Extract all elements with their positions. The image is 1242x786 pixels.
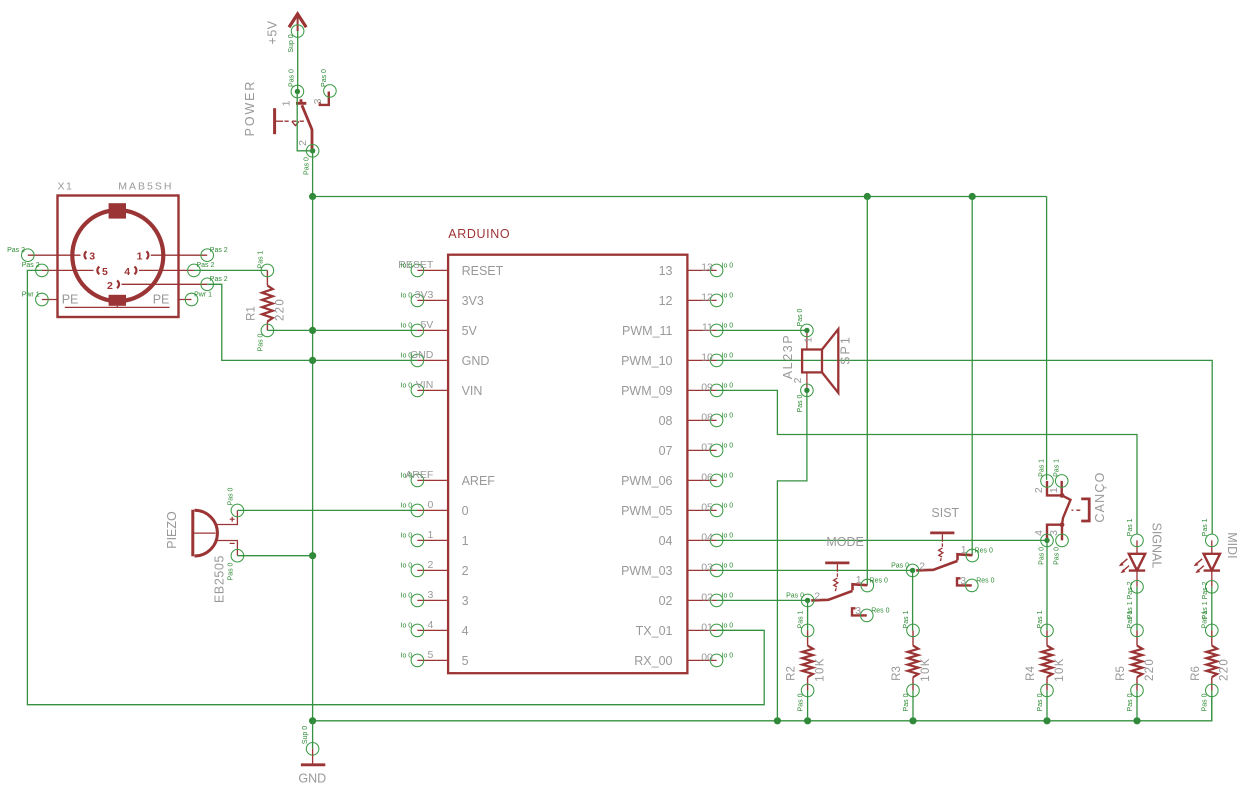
svg-text:4: 4 bbox=[1033, 530, 1045, 536]
svg-text:GND: GND bbox=[462, 354, 490, 368]
svg-text:1: 1 bbox=[961, 544, 967, 556]
junction 5V net bbox=[309, 327, 316, 334]
svg-text:PWM_10: PWM_10 bbox=[621, 354, 672, 368]
wire X1 pin5 to TX_01 bbox=[27, 270, 764, 704]
ARDUINO pin PWM_10 (right) bbox=[621, 352, 733, 369]
ground GND bbox=[298, 743, 326, 786]
X1 contact arcs bbox=[84, 251, 148, 288]
svg-text:0: 0 bbox=[427, 499, 433, 511]
svg-text:VIN: VIN bbox=[462, 384, 483, 398]
svg-text:2: 2 bbox=[107, 280, 113, 292]
svg-text:Pas 0: Pas 0 bbox=[321, 69, 328, 87]
svg-text:11: 11 bbox=[702, 322, 713, 334]
svg-text:Pas 0: Pas 0 bbox=[304, 157, 311, 175]
svg-text:3V3: 3V3 bbox=[462, 294, 484, 308]
wire +5V to POWER pin1 bbox=[297, 31, 299, 91]
ARDUINO pin 2 (left) bbox=[401, 559, 469, 578]
ARDUINO pin RX_00 (right) bbox=[634, 652, 733, 669]
svg-text:Pas 0: Pas 0 bbox=[1202, 693, 1209, 711]
svg-text:PE: PE bbox=[62, 292, 79, 306]
svg-text:2: 2 bbox=[462, 564, 469, 578]
svg-text:Io 0: Io 0 bbox=[722, 412, 734, 419]
svg-text:POWER: POWER bbox=[243, 80, 257, 137]
svg-text:MAB5SH: MAB5SH bbox=[118, 181, 173, 193]
svg-text:EB2505: EB2505 bbox=[213, 555, 227, 603]
ARDUINO pin GND (left) bbox=[401, 349, 490, 368]
svg-text:Res 0: Res 0 bbox=[976, 577, 994, 584]
svg-text:Pas 0: Pas 0 bbox=[1039, 547, 1046, 565]
svg-text:Pas 1: Pas 1 bbox=[1202, 610, 1209, 628]
ARDUINO pin RESET (left) bbox=[398, 259, 503, 278]
ARDUINO pin PWM_05 (right) bbox=[621, 502, 733, 518]
svg-text:1: 1 bbox=[856, 574, 862, 586]
svg-text:02: 02 bbox=[659, 594, 673, 608]
wire to GND symbol bbox=[312, 721, 314, 749]
svg-text:TX_01: TX_01 bbox=[636, 624, 673, 638]
svg-text:Pas 0: Pas 0 bbox=[891, 563, 909, 570]
X1 pin numbers bbox=[89, 251, 142, 292]
svg-text:0: 0 bbox=[462, 504, 469, 518]
wire CANCO pin4 to R4 bbox=[1046, 540, 1048, 630]
wire X1 pin4 to R1 bbox=[194, 269, 268, 271]
svg-text:220: 220 bbox=[274, 298, 286, 321]
svg-text:Pas 0: Pas 0 bbox=[1037, 693, 1044, 711]
X1 pin dir labels bbox=[7, 247, 228, 298]
svg-text:Io 0: Io 0 bbox=[401, 323, 413, 330]
switch CANCO bbox=[1033, 459, 1089, 565]
svg-text:4: 4 bbox=[124, 266, 130, 278]
resistor R6 bbox=[1190, 610, 1231, 711]
ARDUINO pin VIN (left) bbox=[401, 379, 483, 398]
svg-text:R1: R1 bbox=[246, 306, 258, 321]
svg-text:Pas 0: Pas 0 bbox=[797, 693, 804, 711]
ARDUINO pin 4 (left) bbox=[401, 619, 469, 638]
wire 10 to MIDI led bbox=[717, 360, 1213, 534]
wire R6 to rail bbox=[1211, 690, 1213, 720]
svg-text:4: 4 bbox=[462, 624, 469, 638]
wire MIDI led to R6 bbox=[1211, 587, 1213, 631]
svg-text:5: 5 bbox=[427, 649, 433, 661]
svg-text:Pas 2: Pas 2 bbox=[210, 247, 228, 254]
svg-text:Io 0: Io 0 bbox=[722, 592, 734, 599]
svg-text:PE: PE bbox=[153, 292, 170, 306]
svg-text:RX_00: RX_00 bbox=[634, 654, 672, 668]
svg-text:3: 3 bbox=[960, 575, 966, 587]
svg-text:10: 10 bbox=[701, 352, 713, 364]
svg-text:Res 0: Res 0 bbox=[871, 607, 889, 614]
svg-text:3: 3 bbox=[1048, 530, 1060, 536]
resistor R5 bbox=[1115, 610, 1156, 711]
resistor R2 bbox=[786, 610, 827, 711]
wire SP1 pin2 to rail bbox=[777, 390, 807, 721]
resistor R1 bbox=[261, 264, 274, 337]
svg-text:Res 0: Res 0 bbox=[870, 577, 888, 584]
svg-text:Io 0: Io 0 bbox=[722, 442, 734, 449]
wire piezo minus to GND net bbox=[237, 555, 312, 557]
svg-text:06: 06 bbox=[701, 472, 713, 484]
svg-text:3V3: 3V3 bbox=[415, 289, 434, 301]
ARDUINO pin 5V (left) bbox=[401, 319, 478, 338]
svg-text:220: 220 bbox=[1144, 658, 1156, 681]
svg-text:Pas 2: Pas 2 bbox=[210, 276, 228, 283]
svg-text:3: 3 bbox=[89, 251, 95, 263]
ARDUINO pin TX_01 (right) bbox=[636, 622, 734, 639]
svg-text:2: 2 bbox=[297, 140, 309, 146]
ARDUINO pin AREF (left) bbox=[401, 469, 496, 488]
ic ARDUINO body bbox=[448, 255, 687, 674]
wire SIGNAL led to R5 bbox=[1136, 587, 1138, 631]
speaker SP1 AL23P bbox=[801, 324, 839, 397]
ARDUINO pin PWM_03 (right) bbox=[621, 562, 733, 579]
svg-text:2: 2 bbox=[427, 559, 433, 571]
svg-text:Pas 1: Pas 1 bbox=[1039, 459, 1046, 477]
svg-text:CANÇO: CANÇO bbox=[1093, 471, 1107, 522]
svg-text:2: 2 bbox=[1033, 487, 1045, 493]
svg-text:1: 1 bbox=[1048, 487, 1060, 493]
X1 name labels bbox=[58, 181, 174, 193]
svg-text:GND: GND bbox=[298, 772, 326, 786]
PIEZO pin dir labels bbox=[227, 487, 234, 580]
junction GND net bbox=[309, 357, 316, 364]
svg-text:Io 0: Io 0 bbox=[722, 562, 734, 569]
svg-text:Io 0: Io 0 bbox=[722, 262, 734, 269]
svg-text:Pas 1: Pas 1 bbox=[1037, 610, 1044, 628]
svg-text:5: 5 bbox=[102, 266, 108, 278]
svg-text:Pas 1: Pas 1 bbox=[903, 610, 910, 628]
svg-text:5: 5 bbox=[462, 654, 469, 668]
svg-text:Io 0: Io 0 bbox=[722, 352, 734, 359]
wire POWER pin1 to pin2 bbox=[297, 92, 312, 151]
svg-text:08: 08 bbox=[659, 414, 673, 428]
R1 pin dir labels bbox=[257, 250, 264, 351]
svg-text:AL23P: AL23P bbox=[781, 334, 795, 380]
wire SIST pin2 to R3 bbox=[912, 570, 914, 630]
svg-text:Pas 0: Pas 0 bbox=[227, 487, 234, 505]
svg-text:Pas 0: Pas 0 bbox=[289, 69, 296, 87]
X1 pin leads bbox=[28, 255, 207, 299]
svg-text:09: 09 bbox=[701, 382, 713, 394]
svg-text:1: 1 bbox=[803, 337, 815, 343]
wire X1 pin2 to GND pin bbox=[207, 284, 417, 360]
wire 09 to SIGNAL led bbox=[717, 390, 1137, 534]
svg-text:Sup 0: Sup 0 bbox=[288, 34, 295, 52]
svg-text:Pas 0: Pas 0 bbox=[786, 593, 804, 600]
wire R3 to rail bbox=[912, 690, 914, 720]
wire 03 to SIST pin2 bbox=[717, 569, 913, 571]
PIEZO labels bbox=[165, 511, 227, 603]
piezo PIEZO EB2505 bbox=[193, 504, 244, 562]
svg-text:12: 12 bbox=[701, 292, 713, 304]
svg-text:PWM_11: PWM_11 bbox=[622, 324, 673, 338]
svg-text:1: 1 bbox=[281, 100, 293, 106]
ARDUINO pin 02 (right) bbox=[659, 592, 734, 609]
svg-text:Pas 0: Pas 0 bbox=[903, 693, 910, 711]
svg-text:PWM_05: PWM_05 bbox=[621, 504, 672, 518]
svg-text:Io 0: Io 0 bbox=[401, 593, 413, 600]
junction rail SIST feed bbox=[969, 193, 976, 200]
junction rail R4 bbox=[1043, 717, 1050, 724]
wire 04 to CANCO pin4 bbox=[717, 539, 1047, 541]
svg-text:Io 0: Io 0 bbox=[722, 382, 734, 389]
svg-text:X1: X1 bbox=[58, 181, 74, 193]
svg-text:Pas 0: Pas 0 bbox=[1127, 693, 1134, 711]
wire main vertical net bbox=[312, 197, 314, 721]
svg-text:PIEZO: PIEZO bbox=[165, 511, 179, 549]
wire R2 to rail bbox=[807, 690, 809, 720]
POWER pin numbers bbox=[281, 98, 325, 146]
ARDUINO pin 0 (left) bbox=[401, 499, 469, 518]
svg-text:3: 3 bbox=[462, 594, 469, 608]
wire 11 to SP1 pin1 bbox=[717, 329, 807, 331]
ARDUINO pin 07 (right) bbox=[659, 442, 734, 459]
ARDUINO pin 3V3 (left) bbox=[401, 289, 484, 308]
svg-text:Pwr 1: Pwr 1 bbox=[22, 291, 40, 298]
connector X1 MAB5SH bbox=[58, 196, 179, 318]
led SIGNAL bbox=[1119, 518, 1164, 619]
ARDUINO pin 12 (right) bbox=[659, 292, 734, 309]
svg-text:3: 3 bbox=[855, 605, 861, 617]
svg-text:08: 08 bbox=[701, 412, 713, 424]
svg-text:Pas 1: Pas 1 bbox=[1127, 610, 1134, 628]
SP1 labels bbox=[781, 334, 853, 380]
svg-text:R6: R6 bbox=[1190, 666, 1202, 681]
svg-text:2: 2 bbox=[919, 560, 925, 572]
svg-text:PWM_09: PWM_09 bbox=[621, 384, 672, 398]
svg-text:Io 0: Io 0 bbox=[401, 383, 413, 390]
X1 pin circles bbox=[22, 249, 214, 306]
svg-text:SIGNAL: SIGNAL bbox=[1149, 522, 1163, 568]
svg-text:12: 12 bbox=[659, 294, 673, 308]
svg-text:10K: 10K bbox=[815, 657, 827, 681]
svg-text:Pas 1: Pas 1 bbox=[257, 250, 264, 268]
wire rail down to MODE pin1 bbox=[866, 197, 868, 586]
SP1 pin dir labels bbox=[797, 308, 804, 412]
svg-text:Io 0: Io 0 bbox=[401, 623, 413, 630]
svg-text:13: 13 bbox=[701, 262, 713, 274]
wire POWER pin2 down bbox=[312, 151, 314, 197]
svg-text:Io 0: Io 0 bbox=[722, 502, 734, 509]
svg-text:Pas 0: Pas 0 bbox=[227, 562, 234, 580]
svg-text:03: 03 bbox=[701, 562, 713, 574]
svg-text:5V: 5V bbox=[420, 319, 433, 331]
svg-text:3: 3 bbox=[312, 98, 324, 104]
svg-text:VIN: VIN bbox=[416, 379, 434, 391]
svg-text:4: 4 bbox=[427, 619, 433, 631]
svg-text:1: 1 bbox=[462, 534, 469, 548]
switch MODE bbox=[786, 535, 889, 622]
resistor R4 bbox=[1025, 610, 1066, 711]
svg-text:Io 0: Io 0 bbox=[401, 473, 413, 480]
svg-text:Res 0: Res 0 bbox=[975, 547, 993, 554]
ARDUINO pin 3 (left) bbox=[401, 589, 469, 608]
wire bottom GND rail bbox=[313, 697, 1212, 721]
svg-text:SP1: SP1 bbox=[839, 335, 853, 365]
svg-text:AREF: AREF bbox=[462, 474, 496, 488]
svg-text:Pas 0: Pas 0 bbox=[797, 308, 804, 326]
svg-text:Pas 1: Pas 1 bbox=[1053, 459, 1060, 477]
svg-text:Io 0: Io 0 bbox=[722, 472, 734, 479]
svg-text:PWM_03: PWM_03 bbox=[621, 564, 672, 578]
wire +5V rail bbox=[313, 196, 1047, 198]
svg-text:ARDUINO: ARDUINO bbox=[448, 227, 510, 241]
svg-text:Pas 0: Pas 0 bbox=[257, 333, 264, 351]
svg-text:R3: R3 bbox=[891, 666, 903, 681]
wire 01 stub bbox=[717, 629, 765, 631]
svg-text:R4: R4 bbox=[1025, 666, 1037, 681]
wire R1 to 5V pin bbox=[267, 329, 417, 331]
wire rail down to CANCO pin2 bbox=[1046, 197, 1048, 480]
svg-text:Io 0: Io 0 bbox=[401, 293, 413, 300]
svg-text:Io 0: Io 0 bbox=[722, 322, 734, 329]
ARDUINO pin 1 (left) bbox=[401, 529, 469, 548]
ARDUINO pin 13 (right) bbox=[659, 262, 734, 279]
svg-text:Pas 1: Pas 1 bbox=[1202, 518, 1209, 536]
ARDUINO pin PWM_09 (right) bbox=[621, 382, 733, 399]
svg-text:2: 2 bbox=[814, 590, 820, 602]
svg-text:1: 1 bbox=[427, 529, 433, 541]
svg-text:MODE: MODE bbox=[826, 535, 864, 549]
svg-text:10K: 10K bbox=[920, 657, 932, 681]
svg-text:07: 07 bbox=[659, 444, 673, 458]
svg-text:01: 01 bbox=[701, 622, 713, 634]
svg-text:Pas 0: Pas 0 bbox=[1053, 547, 1060, 565]
svg-text:Pwr 1: Pwr 1 bbox=[194, 291, 212, 298]
X1 PE labels bbox=[62, 292, 170, 306]
ARDUINO pin 5 (left) bbox=[401, 649, 469, 668]
wire R5 to rail bbox=[1136, 690, 1138, 720]
svg-text:SIST: SIST bbox=[931, 506, 959, 520]
svg-text:04: 04 bbox=[701, 532, 713, 544]
svg-text:Sup 0: Sup 0 bbox=[302, 726, 309, 744]
svg-text:00: 00 bbox=[701, 652, 713, 664]
junction rail R3 bbox=[909, 717, 916, 724]
switch SIST bbox=[891, 506, 994, 592]
svg-text:Io 0: Io 0 bbox=[722, 652, 734, 659]
svg-text:Pas 1: Pas 1 bbox=[1127, 518, 1134, 536]
junction +5V rail left bbox=[309, 193, 316, 200]
svg-text:PWM_06: PWM_06 bbox=[621, 474, 672, 488]
svg-text:5V: 5V bbox=[462, 324, 478, 338]
svg-text:04: 04 bbox=[659, 534, 673, 548]
junction rail R2 column bbox=[774, 717, 781, 724]
svg-text:Io 0: Io 0 bbox=[722, 292, 734, 299]
wire R4 to rail bbox=[1046, 690, 1048, 720]
wire MODE pin2 to R2 bbox=[807, 600, 809, 630]
svg-text:10K: 10K bbox=[1054, 657, 1066, 681]
svg-text:02: 02 bbox=[701, 592, 713, 604]
svg-text:Pas 2: Pas 2 bbox=[7, 247, 25, 254]
svg-text:05: 05 bbox=[701, 502, 713, 514]
svg-text:R2: R2 bbox=[786, 666, 798, 681]
wire rail down to SIST pin1 bbox=[971, 197, 973, 556]
wire 02 to MODE pin2 bbox=[717, 599, 808, 601]
svg-text:1: 1 bbox=[137, 251, 143, 263]
junction rail R5 bbox=[1133, 717, 1140, 724]
svg-text:Pas 0: Pas 0 bbox=[797, 394, 804, 412]
ARDUINO pin PWM_11 (right) bbox=[622, 322, 733, 339]
svg-text:Io 0: Io 0 bbox=[722, 622, 734, 629]
svg-text:R5: R5 bbox=[1115, 666, 1127, 681]
switch POWER bbox=[275, 85, 337, 158]
svg-text:Pas 2: Pas 2 bbox=[197, 262, 215, 269]
junction piezo minus bbox=[309, 552, 316, 559]
svg-text:Io 0: Io 0 bbox=[401, 263, 413, 270]
svg-text:07: 07 bbox=[701, 442, 713, 454]
svg-text:Pas 2: Pas 2 bbox=[22, 262, 40, 269]
svg-text:Io 0: Io 0 bbox=[401, 353, 413, 360]
svg-text:MIDI: MIDI bbox=[1225, 532, 1239, 558]
svg-text:+5V: +5V bbox=[266, 20, 280, 44]
ARDUINO pin PWM_06 (right) bbox=[621, 472, 733, 489]
svg-text:Io 0: Io 0 bbox=[401, 563, 413, 570]
SP1 pin numbers bbox=[792, 337, 815, 384]
resistor R3 bbox=[891, 610, 932, 711]
svg-text:Io 0: Io 0 bbox=[401, 533, 413, 540]
svg-text:Io 0: Io 0 bbox=[401, 503, 413, 510]
ARDUINO pin 08 (right) bbox=[659, 412, 734, 429]
R1 labels bbox=[246, 298, 287, 321]
svg-text:Pas 1: Pas 1 bbox=[797, 610, 804, 628]
svg-text:Io 0: Io 0 bbox=[401, 653, 413, 660]
svg-text:13: 13 bbox=[659, 264, 673, 278]
led MIDI bbox=[1194, 518, 1239, 619]
supply +5V symbol bbox=[289, 14, 306, 37]
POWER pin dir labels bbox=[289, 69, 329, 175]
svg-text:Io 0: Io 0 bbox=[722, 532, 734, 539]
ARDUINO pin 04 (right) bbox=[659, 532, 734, 549]
junction bottom rail GND tap bbox=[309, 717, 316, 724]
svg-text:220: 220 bbox=[1219, 658, 1231, 681]
junction rail R2 bbox=[804, 717, 811, 724]
wire piezo plus to pin 0 bbox=[237, 509, 417, 511]
svg-text:RESET: RESET bbox=[462, 264, 504, 278]
svg-text:3: 3 bbox=[427, 589, 433, 601]
junction rail MODE feed bbox=[864, 193, 871, 200]
svg-text:GND: GND bbox=[410, 349, 434, 361]
